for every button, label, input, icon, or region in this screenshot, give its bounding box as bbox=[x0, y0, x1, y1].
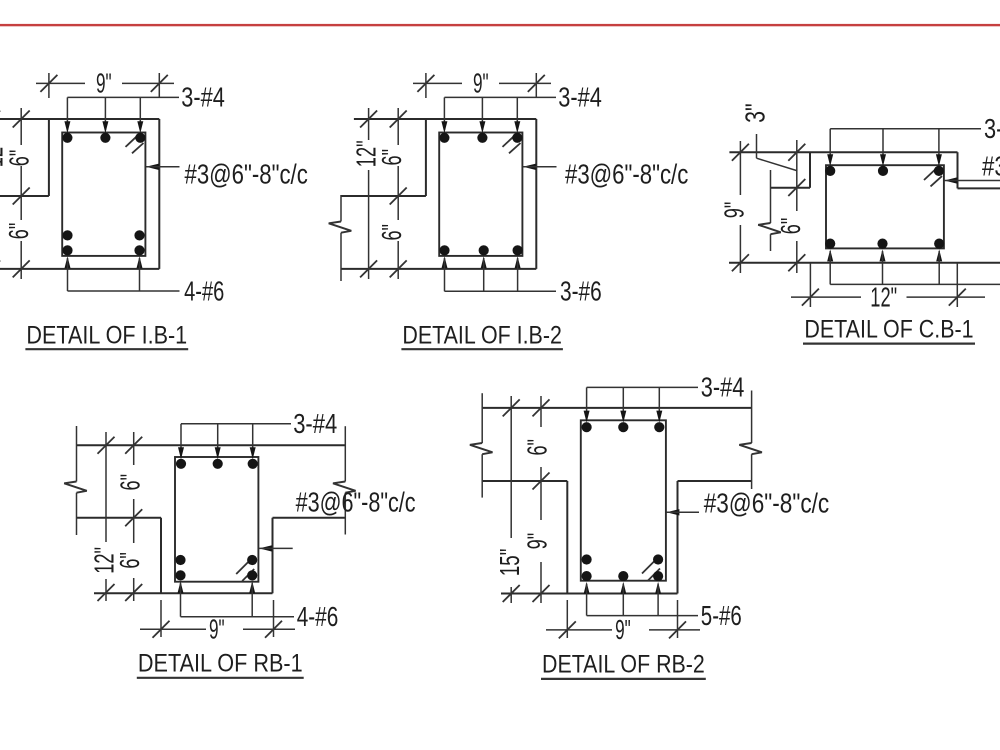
svg-text:#3@6"-8"c/c: #3@6"-8"c/c bbox=[185, 158, 308, 190]
I.B-2: bottom rebars 3-#6 (dots) bbox=[439, 245, 522, 255]
RB-1: left dimension lines (12", 6", 6") bbox=[98, 432, 143, 601]
svg-text:6": 6" bbox=[113, 552, 145, 569]
I.B-1: stirrup #3 tie bbox=[62, 133, 145, 256]
I.B-2: beam outline with slab at left bbox=[341, 119, 536, 269]
svg-text:6": 6" bbox=[520, 439, 552, 456]
I.B-1: stirrup hook marks bbox=[126, 135, 144, 154]
RB-2: left slab break (cut) line bbox=[470, 393, 493, 497]
svg-text:#3@6"-8"c/c: #3@6"-8"c/c bbox=[982, 149, 1000, 181]
RB-2: stirrup label #3@6"-8"c/c with arrow bbox=[666, 487, 829, 519]
C.B-1: title bbox=[803, 315, 975, 343]
RB-2: title bbox=[541, 651, 706, 679]
I.B-2: stirrup #3 tie bbox=[439, 133, 522, 256]
I.B-1: top bar leader and label 3-#4 bbox=[64, 80, 224, 133]
RB-2: top rebars 3-#4 (dots) bbox=[582, 422, 665, 432]
I.B-2: top bar leader and label 3-#4 bbox=[441, 80, 601, 133]
C.B-1: top bar leader and label 3-#4 (clipped) bbox=[827, 112, 1000, 167]
svg-text:9": 9" bbox=[615, 613, 631, 645]
RB-1: left slab break (cut) line bbox=[64, 426, 87, 535]
RB-2: stirrup #3 tie bbox=[581, 420, 666, 580]
I.B-2: bottom bar leader and label 3-#6 bbox=[442, 256, 602, 306]
RB-2: bottom width dimension 9" bbox=[546, 600, 700, 645]
svg-text:4-#6: 4-#6 bbox=[184, 274, 224, 306]
svg-text:9": 9" bbox=[520, 533, 552, 550]
RB-1: stirrup label #3@6"-8"c/c with arrow bbox=[259, 486, 416, 552]
RB-2: top bar leader and label 3-#4 bbox=[584, 370, 745, 422]
C.B-1: stirrup hook marks bbox=[924, 168, 942, 187]
svg-text:6": 6" bbox=[2, 223, 34, 240]
svg-text:6": 6" bbox=[375, 224, 407, 241]
RB-1: bottom bar leader and label 4-#6 bbox=[178, 581, 339, 632]
svg-text:3": 3" bbox=[739, 103, 771, 123]
svg-text:6": 6" bbox=[375, 149, 407, 166]
I.B-2: top width dimension 9" bbox=[413, 67, 551, 99]
C.B-1: bottom width dimension 12" bbox=[791, 263, 985, 312]
C.B-1: left depth dimension 9" bbox=[718, 141, 750, 273]
I.B-1: title bbox=[25, 321, 188, 349]
C.B-1: 3" dimension with bent leader bbox=[739, 103, 797, 170]
RB-1: left dimension texts bbox=[88, 474, 146, 574]
I.B-1: top width dimension 9" bbox=[36, 67, 174, 99]
I.B-1: left dimension lines (12", 6", 6") bbox=[0, 108, 30, 279]
RB-2: slab and beam outline bbox=[482, 408, 751, 594]
C.B-1: left slab break (cut) line bbox=[758, 170, 781, 251]
RB-2: bottom rebars 5-#6 (dots) bbox=[582, 554, 664, 581]
svg-text:9": 9" bbox=[96, 67, 112, 99]
RB-1: right slab break (cut) line bbox=[333, 426, 356, 534]
svg-text:DETAIL OF I.B-2: DETAIL OF I.B-2 bbox=[402, 321, 562, 349]
RB-2: left dimension lines (15", 6", 9") bbox=[503, 396, 550, 603]
C.B-1: inner depth dimension 6" bbox=[774, 140, 806, 273]
svg-text:6": 6" bbox=[774, 218, 806, 235]
I.B-2: stirrup label #3@6"-8"c/c with arrow bbox=[523, 158, 688, 190]
svg-text:3-#4: 3-#4 bbox=[181, 80, 225, 112]
RB-2: right slab break (cut) line bbox=[739, 391, 762, 490]
C.B-1: stirrup #3 tie bbox=[826, 165, 944, 248]
svg-text:3-#4: 3-#4 bbox=[701, 370, 745, 402]
svg-text:3-#6: 3-#6 bbox=[560, 275, 602, 307]
svg-text:9": 9" bbox=[473, 67, 489, 99]
svg-text:6": 6" bbox=[3, 150, 35, 167]
I.B-2: left dimension texts bbox=[350, 140, 407, 240]
I.B-1: beam outline with slab at left bbox=[0, 119, 159, 269]
I.B-2: left dimension lines (12", 6", 6") bbox=[360, 108, 407, 279]
I.B-2: slab break (cut) line bbox=[329, 195, 352, 281]
svg-text:#3@6"-8"c/c: #3@6"-8"c/c bbox=[565, 158, 688, 190]
I.B-1: bottom bar leader and label 4-#6 bbox=[65, 256, 225, 306]
I.B-2: title bbox=[401, 321, 563, 349]
I.B-2: stirrup hook marks bbox=[503, 135, 521, 154]
C.B-1: bottom bar leader (label off-canvas) bbox=[827, 249, 1000, 284]
svg-text:3-#4: 3-#4 bbox=[984, 112, 1000, 144]
I.B-1: bottom rebars 4-#6 (dots) bbox=[62, 230, 144, 255]
RB-1: slab and beam outline bbox=[77, 445, 346, 593]
I.B-1: top rebars 3-#4 (dots) bbox=[62, 133, 145, 143]
RB-1: bottom width dimension 9" bbox=[140, 600, 295, 645]
RB-2: left dimension texts bbox=[493, 439, 552, 576]
svg-text:DETAIL OF RB-2: DETAIL OF RB-2 bbox=[542, 651, 705, 679]
svg-text:4-#6: 4-#6 bbox=[297, 600, 339, 632]
C.B-1: stirrup label #3@ with arrow (clipped) bbox=[944, 149, 1000, 183]
C.B-1: beam outline with slabs left and right bbox=[729, 152, 1000, 263]
svg-text:DETAIL OF I.B-1: DETAIL OF I.B-1 bbox=[26, 321, 187, 349]
svg-text:#3@6"-8"c/c: #3@6"-8"c/c bbox=[296, 486, 416, 518]
C.B-1: bottom rebars 3-#6 (dots) bbox=[825, 239, 944, 249]
RB-1: top rebars 3-#4 (dots) bbox=[176, 459, 258, 469]
RB-1: title bbox=[137, 650, 304, 678]
svg-text:15": 15" bbox=[493, 549, 525, 577]
I.B-2: top rebars 3-#4 (dots) bbox=[439, 133, 522, 143]
C.B-1: top rebars 3-#4 (dots) bbox=[825, 166, 944, 176]
svg-text:12": 12" bbox=[870, 280, 897, 312]
svg-text:DETAIL OF C.B-1: DETAIL OF C.B-1 bbox=[804, 315, 973, 343]
svg-text:3-#4: 3-#4 bbox=[558, 80, 602, 112]
svg-text:5-#6: 5-#6 bbox=[701, 599, 742, 631]
svg-text:6": 6" bbox=[114, 474, 146, 491]
svg-text:9": 9" bbox=[209, 613, 225, 645]
svg-text:9": 9" bbox=[718, 202, 750, 219]
red separator rule bbox=[0, 24, 1000, 26]
svg-text:3-#4: 3-#4 bbox=[293, 407, 337, 439]
RB-1: bottom rebars 4-#6 (dots) bbox=[175, 555, 257, 581]
svg-text:DETAIL OF RB-1: DETAIL OF RB-1 bbox=[138, 650, 303, 678]
svg-text:#3@6"-8"c/c: #3@6"-8"c/c bbox=[704, 487, 830, 519]
I.B-1: left dimension texts bbox=[0, 140, 35, 239]
I.B-1: stirrup label #3@6"-8"c/c with arrow bbox=[146, 158, 308, 190]
RB-1: stirrup #3 tie bbox=[175, 457, 258, 582]
RB-1: top bar leader and label 3-#4 bbox=[178, 407, 337, 459]
RB-2: stirrup hook marks bbox=[642, 561, 660, 581]
RB-2: bottom bar leader and label 5-#6 bbox=[584, 582, 742, 631]
RB-1: stirrup hook marks bbox=[236, 561, 254, 581]
